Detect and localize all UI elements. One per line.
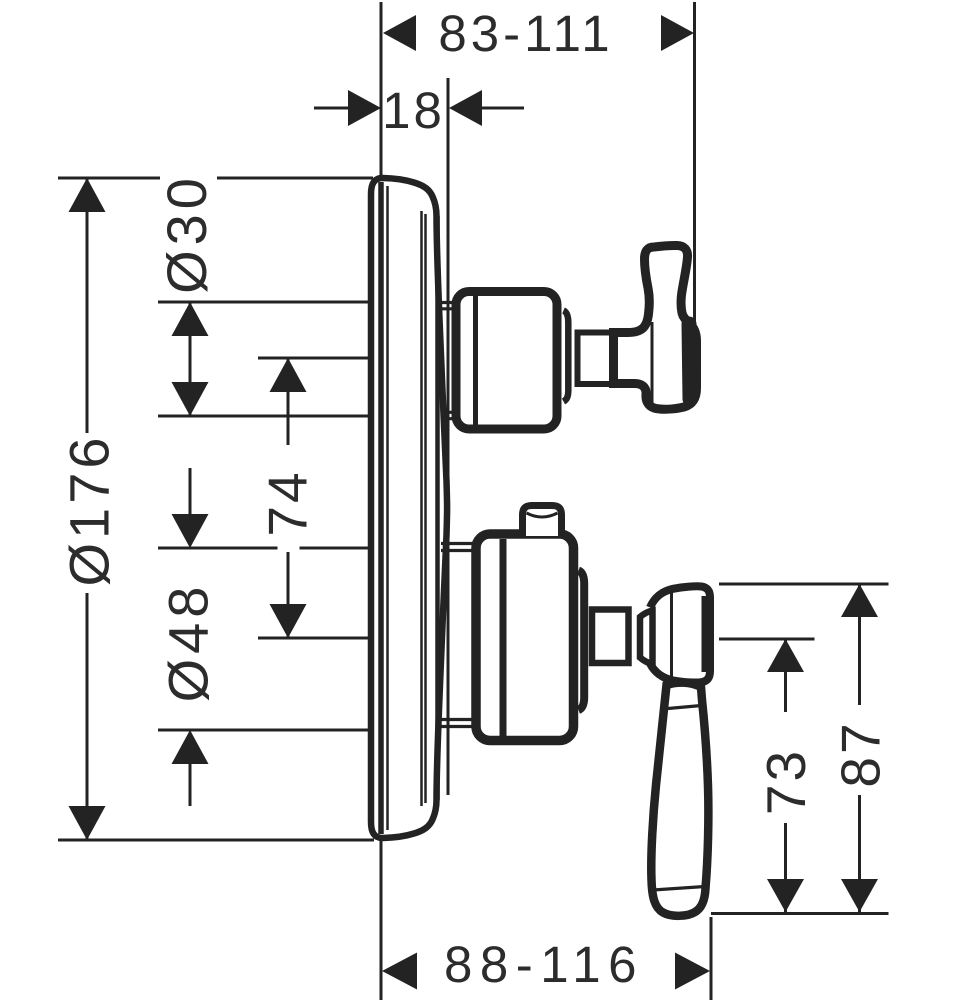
svg-text:83-111: 83-111 [438,5,613,62]
svg-text:Ø176: Ø176 [58,434,121,587]
svg-text:74: 74 [257,469,319,536]
svg-text:18: 18 [382,82,445,139]
svg-text:Ø30: Ø30 [155,173,218,294]
svg-text:87: 87 [830,720,892,787]
svg-text:88-116: 88-116 [444,936,644,993]
svg-text:73: 73 [755,748,817,815]
svg-text:Ø48: Ø48 [157,582,220,703]
